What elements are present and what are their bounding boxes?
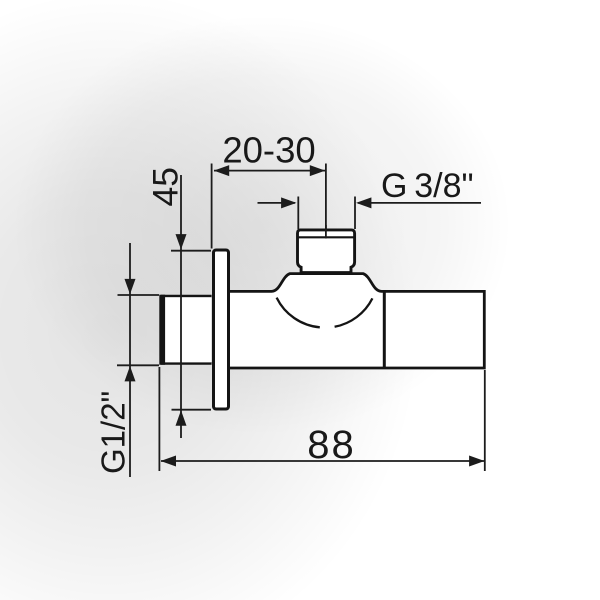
svg-text:G1/2": G1/2" [95, 391, 132, 474]
svg-text:G 3/8": G 3/8" [381, 167, 474, 205]
svg-text:88: 88 [307, 423, 356, 467]
svg-text:20-30: 20-30 [222, 130, 315, 171]
svg-text:45: 45 [146, 167, 186, 207]
